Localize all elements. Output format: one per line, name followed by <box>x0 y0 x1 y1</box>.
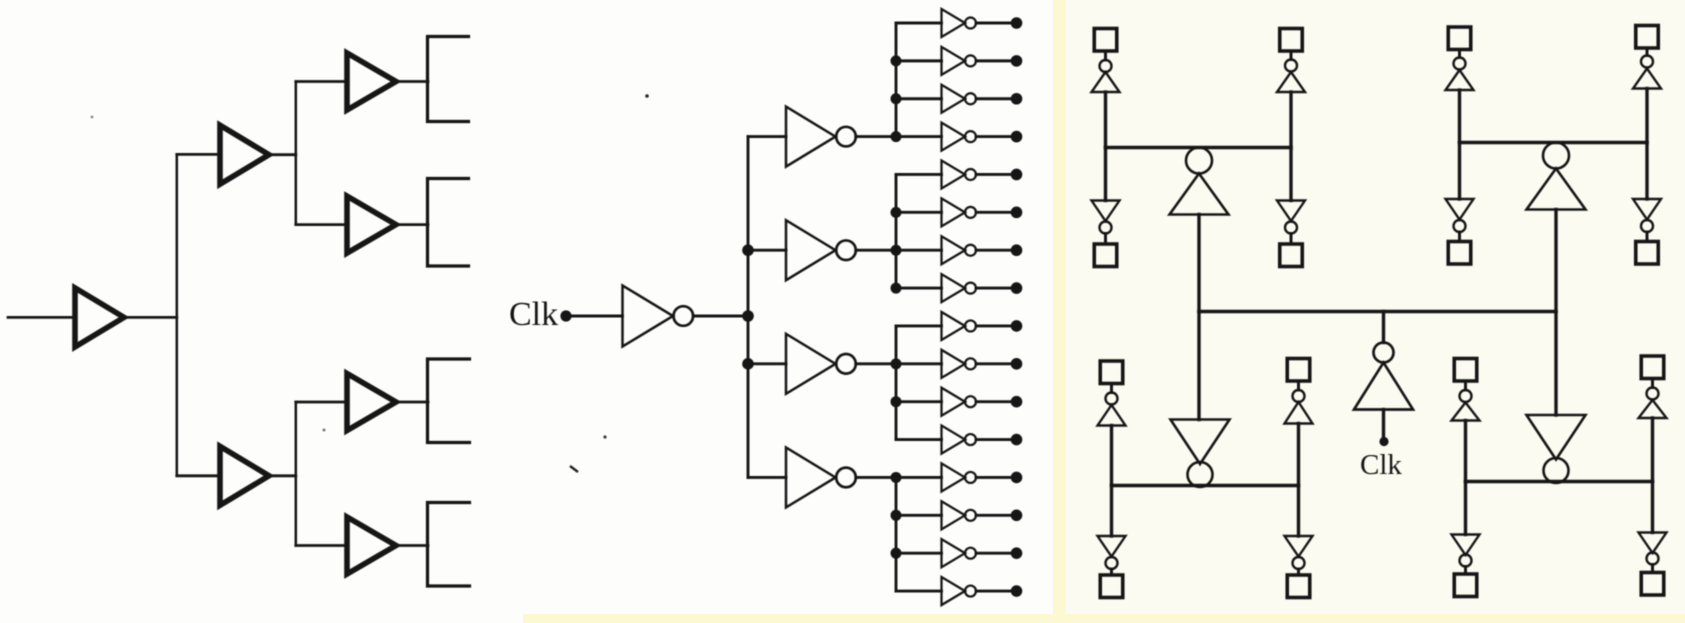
load square S2 <box>1280 29 1303 52</box>
load dot D13 <box>1011 472 1023 484</box>
wire to inverter U6 <box>896 22 942 25</box>
inverter W5 (leaf, output up) <box>1454 58 1466 70</box>
wire to inverter U10 <box>896 173 942 176</box>
inverter V1 (top-left quadrant driver) <box>1186 148 1212 174</box>
load square S16 <box>1641 573 1664 596</box>
junction dot group 2 row 6 <box>891 207 902 218</box>
wire W15 input <box>1464 482 1467 535</box>
wire main distribution bus <box>747 137 750 478</box>
wire trunk to inverter V0 <box>1382 312 1385 343</box>
wire square to inverter W2 <box>1290 51 1293 60</box>
wire group 1 bus <box>895 23 898 137</box>
wire group 2 bus <box>895 174 898 288</box>
wire U14 output <box>976 325 1017 328</box>
wire to inverter U12 <box>896 249 942 252</box>
wire main bus to inverter U2 <box>748 135 786 138</box>
inverter W7 (leaf, output down) <box>1446 199 1474 220</box>
wire to inverter U20 <box>896 552 942 555</box>
load square S7 <box>1448 242 1471 265</box>
wire square to inverter W1 <box>1104 51 1107 60</box>
inverter U10 (leaf) <box>942 160 966 188</box>
wire to inverter U15 <box>896 362 942 365</box>
node Clk input dot <box>560 310 571 321</box>
wire to inverter U13 <box>896 287 942 290</box>
node Clk input dot (right network) <box>1379 437 1388 446</box>
wire trunk <box>1199 310 1556 313</box>
wire to buffer A6 <box>296 401 347 404</box>
wire to inverter U8 <box>896 97 942 100</box>
junction dot group 4 row 15 <box>891 548 902 559</box>
wire to buffer A4 <box>296 80 347 83</box>
wire to inverter U7 <box>896 59 942 62</box>
wire V4 input from trunk <box>1554 312 1557 416</box>
load dot D11 <box>1011 396 1023 408</box>
wire U11 output <box>976 211 1017 214</box>
wire W9 input <box>1110 426 1113 486</box>
inverter U5 (second level) <box>786 447 836 507</box>
buffer A5 (tree level 3) <box>347 196 396 253</box>
wire V3 input from trunk <box>1197 312 1200 420</box>
wire square to inverter W5 <box>1458 50 1461 58</box>
wire square to inverter W9 <box>1110 384 1113 393</box>
wire to inverter U9 <box>896 135 942 138</box>
load square S6 <box>1636 26 1659 49</box>
load square S12 <box>1287 575 1310 598</box>
page gutter strip vertical <box>1053 0 1066 623</box>
wire W13 input <box>1464 421 1467 482</box>
wire U18 output <box>976 476 1017 479</box>
wire W8 input <box>1645 143 1648 200</box>
wire to inverter U21 <box>896 590 942 593</box>
wire U19 output <box>976 514 1017 517</box>
load dot D15 <box>1011 547 1023 559</box>
junction dot group 2 row 8 <box>891 283 902 294</box>
load dot D14 <box>1011 510 1023 522</box>
wire U5 output to group bus <box>856 476 896 479</box>
wire U3 output to group bus <box>856 249 896 252</box>
wire top-left quadrant branch line <box>1106 146 1292 149</box>
wire W1 input <box>1104 92 1107 148</box>
wire U4 output to group bus <box>856 362 896 365</box>
wire bottom-left quadrant branch line <box>1112 484 1299 487</box>
load dot D12 <box>1011 434 1023 446</box>
wire W6 input <box>1645 89 1648 143</box>
inverter U9 (leaf) <box>942 123 966 151</box>
wire U9 output <box>976 135 1017 138</box>
inverter W10 (leaf, output up) <box>1293 390 1305 402</box>
load dot D1 <box>1011 17 1023 29</box>
wire to inverter U17 <box>896 438 942 441</box>
wire W11 input <box>1110 486 1113 537</box>
wire W2 input <box>1289 92 1292 148</box>
wire U16 output <box>976 400 1017 403</box>
inverter W4 (leaf, output down) <box>1277 201 1305 222</box>
inverter V3 (bottom-left quadrant driver) <box>1171 420 1230 465</box>
inverter W9 (leaf, output up) <box>1106 393 1118 405</box>
inverter W1 (leaf, output up) <box>1100 60 1112 72</box>
buffer A4 (tree level 3) <box>347 53 396 110</box>
wire inverter W3 to square <box>1104 234 1107 245</box>
inverter U20 (leaf) <box>942 539 966 567</box>
wire U6 output <box>976 22 1017 25</box>
wire group 3 bus <box>895 326 898 440</box>
wire W14 input <box>1651 418 1654 482</box>
load bracket L1 <box>428 37 469 122</box>
wire bottom level-2 vertical bus <box>295 402 298 546</box>
junction dot at U4 branch <box>742 358 754 370</box>
inverter V0 (central clock driver) <box>1374 343 1394 363</box>
inverter V2 (top-right quadrant driver) <box>1543 143 1569 169</box>
inverter U21 (leaf) <box>942 577 966 605</box>
inverter U15 (leaf) <box>942 350 966 378</box>
buffer A2 (tree level 2 top) <box>220 125 269 184</box>
wire U20 output <box>976 552 1017 555</box>
wire to inverter U19 <box>896 514 942 517</box>
load square S14 <box>1641 356 1664 379</box>
wire input to buffer tree <box>8 316 75 319</box>
inverter W14 (leaf, output up) <box>1647 388 1659 400</box>
wire to inverter U16 <box>896 400 942 403</box>
junction dot group 1 row 4 <box>891 131 902 142</box>
svg-text:Clk: Clk <box>1360 449 1402 481</box>
inverter U19 (leaf) <box>942 501 966 529</box>
buffer A6 (tree level 3) <box>347 374 396 431</box>
junction dot group 1 row 3 <box>891 93 902 104</box>
wire W12 input <box>1297 486 1300 537</box>
junction dot group 1 row 2 <box>891 55 902 66</box>
wire inverter W7 to square <box>1458 232 1461 242</box>
load dot D10 <box>1011 358 1023 370</box>
wire inverter W16 to square <box>1651 565 1654 573</box>
load square S13 <box>1454 359 1477 382</box>
junction dot group 2 row 7 <box>891 245 902 256</box>
wire to inverter U18 <box>896 476 942 479</box>
load dot D4 <box>1011 131 1023 143</box>
inverter U2 (second level) <box>786 107 836 167</box>
wire Clk to inverter U1 <box>566 315 623 318</box>
wire square to inverter W6 <box>1646 48 1649 56</box>
wire A7 output <box>396 544 428 547</box>
page tint right panel <box>1066 0 1685 623</box>
wire V2 input from trunk <box>1554 210 1557 312</box>
wire to buffer A5 <box>296 223 347 226</box>
wire W10 input <box>1297 424 1300 486</box>
load square S3 <box>1094 244 1117 267</box>
wire V1 input from trunk <box>1197 215 1200 312</box>
load square S10 <box>1287 359 1310 382</box>
inverter W11 (leaf, output down) <box>1098 536 1126 557</box>
inverter U7 (leaf) <box>942 47 966 75</box>
wire U10 output <box>976 173 1017 176</box>
inverter W6 (leaf, output up) <box>1641 56 1653 68</box>
load square S4 <box>1280 244 1303 267</box>
inverter W2 (leaf, output up) <box>1285 60 1297 72</box>
wire inverter W8 to square <box>1646 232 1649 242</box>
wire square to inverter W10 <box>1297 381 1300 390</box>
wire to buffer A3 <box>177 474 220 477</box>
buffer A3 (tree level 2 bottom) <box>220 446 269 505</box>
wire square to inverter W14 <box>1651 379 1654 388</box>
load dot D8 <box>1011 282 1023 294</box>
wire to buffer A2 <box>177 153 220 156</box>
wire inverter W12 to square <box>1297 569 1300 575</box>
inverter W16 (leaf, output down) <box>1639 533 1667 554</box>
inverter U6 (leaf) <box>942 9 966 37</box>
wire U21 output <box>976 590 1017 593</box>
wire main bus to inverter U4 <box>748 362 786 365</box>
wire top level-2 vertical bus <box>295 82 298 225</box>
wire to buffer A7 <box>296 544 347 547</box>
inverter U1 (root driver) <box>623 286 674 347</box>
load bracket L3 <box>428 359 470 443</box>
wire U7 output <box>976 59 1017 62</box>
wire A5 output <box>396 223 428 226</box>
page bottom strip <box>523 614 1685 623</box>
wire main bus to inverter U3 <box>748 249 786 252</box>
inverter U3 (second level) <box>786 220 836 280</box>
wire level-1 vertical bus <box>176 154 179 475</box>
load dot D16 <box>1011 585 1023 597</box>
wire W3 input <box>1104 148 1107 201</box>
inverter U8 (leaf) <box>942 85 966 113</box>
load square S15 <box>1454 574 1477 597</box>
wire inverter W11 to square <box>1110 569 1113 575</box>
wire top-right quadrant branch line <box>1460 141 1648 144</box>
load dot D6 <box>1011 207 1023 219</box>
wire U12 output <box>976 249 1017 252</box>
load square S5 <box>1448 27 1471 50</box>
inverter V4 (bottom-right quadrant driver) <box>1527 415 1586 460</box>
wire W16 input <box>1651 482 1654 533</box>
wire A3 output <box>269 474 296 477</box>
load square S9 <box>1100 361 1123 384</box>
inverter U12 (leaf) <box>942 236 966 264</box>
junction dot group 4 row 13 <box>891 472 902 483</box>
wire main bus to inverter U5 <box>748 476 786 479</box>
wire inverter W4 to square <box>1290 234 1293 245</box>
load square S11 <box>1100 575 1123 598</box>
buffer A1 (tree level 1) <box>75 288 124 347</box>
inverter U18 (leaf) <box>942 463 966 491</box>
wire W5 input <box>1458 90 1461 143</box>
load bracket L4 <box>428 503 470 587</box>
load dot D7 <box>1011 244 1023 256</box>
wire to inverter U14 <box>896 325 942 328</box>
wire W7 input <box>1458 143 1461 200</box>
wire V0 input <box>1382 410 1385 442</box>
wire A4 output <box>396 80 428 83</box>
wire inverter W15 to square <box>1464 567 1467 575</box>
junction dot group 4 row 14 <box>891 510 902 521</box>
junction dot on main bus <box>742 310 754 322</box>
wire U13 output <box>976 287 1017 290</box>
load square S8 <box>1636 242 1659 265</box>
wire U1 output <box>693 315 748 318</box>
load bracket L2 <box>428 179 469 267</box>
svg-text:Clk: Clk <box>509 296 558 333</box>
junction dot group 3 row 10 <box>891 358 902 369</box>
load dot D3 <box>1011 93 1023 105</box>
junction dot group 3 row 11 <box>891 396 902 407</box>
wire A6 output <box>396 401 428 404</box>
load dot D2 <box>1011 55 1023 67</box>
load dot D5 <box>1011 169 1023 181</box>
wire group 4 bus <box>895 477 898 591</box>
inverter W3 (leaf, output down) <box>1092 201 1120 222</box>
buffer A7 (tree level 3) <box>347 517 396 574</box>
junction dot at U3 branch <box>742 244 754 256</box>
inverter U11 (leaf) <box>942 198 966 226</box>
load square S1 <box>1094 29 1117 52</box>
inverter W13 (leaf, output up) <box>1460 390 1472 402</box>
wire U15 output <box>976 362 1017 365</box>
inverter W8 (leaf, output down) <box>1633 199 1661 220</box>
wire W4 input <box>1289 148 1292 201</box>
wire A2 output <box>269 153 296 156</box>
wire U8 output <box>976 97 1017 100</box>
load dot D9 <box>1011 320 1023 332</box>
wire square to inverter W13 <box>1464 381 1467 390</box>
wire bottom-right quadrant branch line <box>1466 480 1653 483</box>
wire A1 output <box>124 316 177 319</box>
wire to inverter U11 <box>896 211 942 214</box>
inverter U14 (leaf) <box>942 312 966 340</box>
inverter W12 (leaf, output down) <box>1285 536 1313 557</box>
wire U2 output to group bus <box>856 135 896 138</box>
inverter U4 (second level) <box>786 334 836 394</box>
wire (scan speck near U1) <box>645 94 649 98</box>
inverter U13 (leaf) <box>942 274 966 302</box>
wire U17 output <box>976 438 1017 441</box>
inverter W15 (leaf, output down) <box>1452 535 1480 556</box>
inverter U16 (leaf) <box>942 388 966 416</box>
inverter U17 (leaf) <box>942 426 966 454</box>
